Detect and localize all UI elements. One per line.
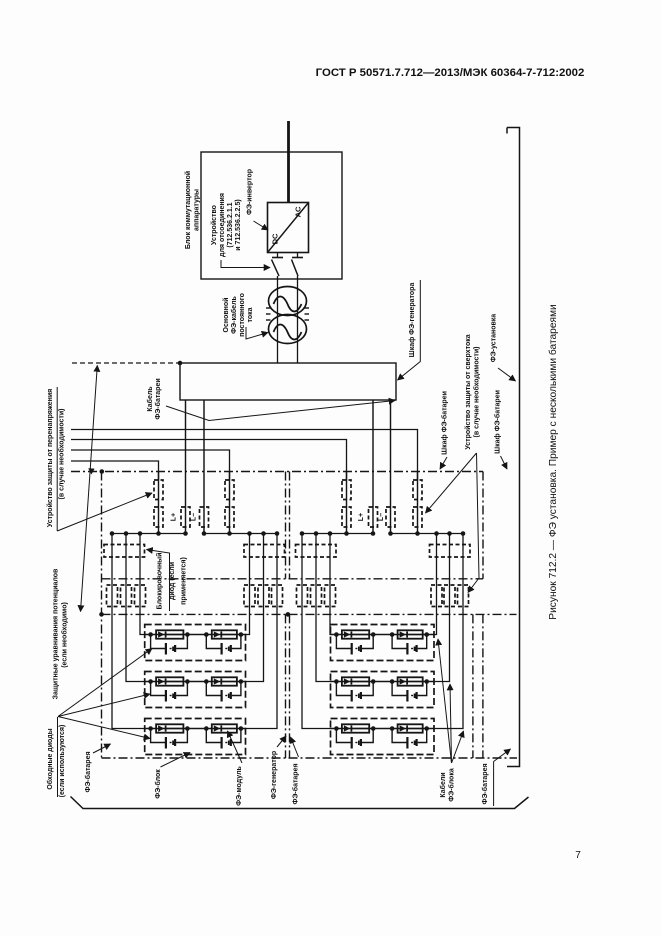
svg-text:ФЭ-батарея: ФЭ-батарея (481, 763, 489, 804)
PV module (156, 724, 183, 732)
svg-text:(712.536.2.1.1: (712.536.2.1.1 (227, 202, 234, 247)
bus left battery negative (204, 533, 277, 535)
wire DC pole 1 from switch to generator box (277, 276, 279, 363)
bus right battery positive (302, 533, 373, 535)
PV module (342, 630, 369, 638)
wire surge line 2 (71, 440, 347, 481)
svg-text:ФЭ-батареи: ФЭ-батареи (154, 378, 162, 419)
PV cell string below module (336, 682, 351, 696)
rule and leader ФЭ-батарея right (493, 762, 495, 807)
boundary chain vertical mid-right (289, 472, 291, 579)
svg-text:применяется): применяется) (181, 557, 188, 605)
svg-text:Блок коммутационной: Блок коммутационной (184, 171, 192, 249)
svg-text:7: 7 (575, 850, 581, 861)
leaders Кабели ФЭ-блока (438, 639, 452, 763)
terminal strip row1 cluster D (430, 545, 471, 558)
PV cell string below module (151, 682, 166, 696)
side dashes of converter symbol (266, 307, 271, 309)
svg-text:ФЭ-блок: ФЭ-блок (154, 769, 162, 799)
svg-text:ФЭ-генератор: ФЭ-генератор (271, 751, 278, 799)
disconnector switch blade 2 (292, 260, 299, 277)
leader to disconnector (221, 260, 270, 268)
leader equipotential bonding (double arrow) (81, 366, 98, 612)
svg-text:Устройство защиты от перенапря: Устройство защиты от перенапряжения (46, 389, 54, 527)
PV generator junction box (Шкаф ФЭ-генератора) (180, 363, 396, 400)
rule for surge label (56, 387, 58, 531)
svg-text:ФЭ-кабель: ФЭ-кабель (230, 295, 238, 333)
PV module (212, 677, 237, 685)
boundary chain bottom of battery cabinets (102, 578, 484, 580)
PV string box group R row 2 (331, 672, 435, 708)
PV cell string below module (392, 682, 407, 696)
SPD dashed boxes at x=417.5 (413, 480, 422, 500)
PV string box group R row 1 (331, 625, 435, 661)
leaders сверхтока (426, 453, 477, 513)
svg-text:Рисунок 712.2 — ФЭ установка.: Рисунок 712.2 — ФЭ установка. Пример с н… (547, 304, 559, 619)
svg-text:Шкаф ФЭ-генератора: Шкаф ФЭ-генератора (409, 283, 416, 358)
risers cluster D from right strings (434, 607, 437, 635)
svg-text:DC: DC (271, 233, 280, 244)
svg-text:Кабели: Кабели (439, 772, 447, 797)
svg-text:Устройство: Устройство (210, 205, 218, 245)
switchgear assembly box (Блок коммутационной аппаратуры) (201, 152, 342, 279)
risers cluster C to right strings (329, 607, 332, 635)
wires cluster C drop to terminals (301, 534, 303, 607)
wire surge line 1 (71, 430, 418, 481)
svg-text:для отсоединения: для отсоединения (219, 193, 226, 257)
disconnector switch blade 1 (272, 260, 280, 277)
risers cluster A to left strings (140, 607, 145, 635)
string bus group R row 2 (331, 681, 435, 683)
pole fuse dashed box at x=185.5 (181, 507, 190, 527)
boundary chain line top of battery cabinets (71, 471, 483, 473)
PV cell string below module (392, 635, 407, 649)
terminal boxes row2 cluster C (297, 585, 308, 607)
svg-text:Шкаф ФЭ-батареи: Шкаф ФЭ-батареи (441, 391, 449, 455)
bus right battery negative (391, 533, 464, 535)
boundary chain vertical right outer lower (482, 614, 484, 758)
svg-text:тока: тока (247, 307, 254, 322)
svg-text:AC: AC (294, 206, 303, 217)
string bus group L row 2 (145, 681, 246, 683)
rule and leader for Шкаф ФЭ-генератора (398, 280, 421, 380)
converter/meter symbol circle 2 (269, 315, 307, 344)
PV module (342, 724, 369, 732)
svg-text:ФЭ-инвертор: ФЭ-инвертор (247, 169, 254, 215)
node on array chain (99, 612, 104, 617)
PV cell string below module (392, 729, 407, 743)
svg-text:Блокировочный: Блокировочный (156, 553, 164, 610)
PV module (342, 677, 369, 685)
PV string box group R row 3 (331, 719, 435, 755)
wires cluster B drop to terminals (249, 534, 251, 607)
leader to inverter (254, 221, 269, 230)
svg-text:постоянного: постоянного (239, 293, 246, 337)
PV string box group L row 3 (145, 719, 246, 755)
PV module (398, 677, 423, 685)
PV string box group L row 2 (145, 672, 246, 708)
node at generator box corner (178, 361, 183, 366)
svg-text:L+: L+ (171, 513, 178, 521)
string bus group R row 1 (331, 634, 435, 636)
pole fuse dashed box at x=204 (200, 507, 209, 527)
boundary chain top of PV arrays (102, 613, 517, 615)
svg-text:L–: L– (378, 513, 385, 521)
svg-text:Защитные уравнивания потенциал: Защитные уравнивания потенциалов (53, 568, 60, 699)
rule for Обходные диоды (57, 717, 59, 797)
terminal boxes row2 cluster A (107, 585, 118, 607)
svg-text:ФЭ-батарея: ФЭ-батарея (84, 751, 92, 792)
svg-text:Обходные диоды: Обходные диоды (46, 728, 54, 789)
wires cluster D drop to terminals (436, 534, 438, 607)
PV cell string below module (151, 729, 166, 743)
disconnector terminals below inverter (277, 253, 279, 258)
risers cluster B from left strings (246, 607, 250, 635)
PV module (212, 724, 237, 732)
svg-text:(в случае необходимости): (в случае необходимости) (58, 409, 66, 500)
svg-text:Кабель: Кабель (146, 386, 154, 412)
leader Кабель ФЭ-батареи (166, 401, 395, 421)
svg-text:(если используются): (если используются) (59, 725, 66, 798)
PV string box group L row 1 (145, 625, 246, 661)
converter/meter symbol circle 1 (269, 287, 307, 316)
PV module (212, 630, 237, 638)
svg-text:диод (если: диод (если (169, 562, 176, 600)
wire surge line 4 (71, 461, 159, 480)
boundary chain vertical right upper (482, 472, 484, 579)
PV module (398, 630, 423, 638)
string bus group L row 1 (145, 634, 246, 636)
inverter U1 DC/AC box (268, 203, 309, 253)
svg-text:L–: L– (191, 513, 198, 521)
svg-text:ФЭ-модуль: ФЭ-модуль (236, 765, 243, 805)
PV module (398, 724, 423, 732)
PV cell string below module (206, 729, 221, 743)
string bus group L row 3 (145, 728, 246, 730)
SPD dashed boxes at x=229.5 (225, 480, 234, 500)
svg-text:и 712.536.2.2.5): и 712.536.2.2.5) (235, 199, 242, 250)
wire DC pole 2 from switch to generator box (297, 276, 299, 363)
svg-text:Устройство защиты от сверхтока: Устройство защиты от сверхтока (464, 334, 472, 449)
svg-text:ФЭ-батарея: ФЭ-батарея (292, 763, 300, 804)
wire surge line 3 (71, 450, 230, 480)
svg-text:L+: L+ (358, 513, 365, 521)
leader to SPD (57, 493, 152, 531)
terminal boxes row2 cluster D (431, 585, 442, 607)
rule and leader for Блокировочный диод (147, 550, 170, 612)
PV cell string below module (206, 682, 221, 696)
svg-text:(если необходимо): (если необходимо) (60, 602, 68, 668)
bus left battery positive (112, 533, 186, 535)
boundary chain vertical mid-left (285, 472, 287, 579)
bypass diode fan leaders (58, 649, 152, 717)
wire AC output (thick) (287, 121, 290, 203)
string bus group R row 3 (331, 728, 435, 730)
svg-text:ГОСТ Р 50571.7.712—2013/МЭК 6: ГОСТ Р 50571.7.712—2013/МЭК 60364-7-712:… (316, 67, 585, 79)
leader to main DC cable (246, 327, 268, 339)
boundary chain vertical left (101, 472, 103, 759)
boundary chain vertical right inner lower (472, 614, 474, 758)
svg-text:ФЭ-блока: ФЭ-блока (448, 768, 456, 802)
SPD dashed boxes at x=158.5 (154, 480, 163, 500)
PV cell string below module (336, 635, 351, 649)
terminal strip row1 cluster A (104, 545, 145, 558)
svg-text:ФЭ-установка: ФЭ-установка (491, 314, 498, 363)
PV cell string below module (336, 729, 351, 743)
PV cell string below module (206, 635, 221, 649)
terminal strip row1 cluster B (244, 545, 285, 558)
equipotential dashed line at generator box (72, 362, 180, 364)
terminal boxes row2 cluster B (244, 585, 255, 607)
pole fuse dashed box at x=373 (369, 507, 378, 527)
SPD dashed boxes at x=346.5 (342, 480, 351, 500)
svg-text:Основной: Основной (222, 298, 230, 333)
PV cell string below module (151, 635, 166, 649)
terminal strip row1 cluster C (296, 545, 337, 558)
boundary chain bottom of PV arrays (102, 757, 518, 759)
svg-text:аппаратуры: аппаратуры (194, 189, 201, 231)
PV module (156, 677, 183, 685)
pole fuse dashed box at x=390.5 (386, 507, 395, 527)
PV module (156, 630, 183, 638)
svg-text:(в случае необходимости): (в случае необходимости) (473, 347, 481, 438)
bottom frame line with bevels (71, 797, 529, 809)
wires cluster A drop to terminals (111, 534, 113, 607)
svg-text:Шкаф ФЭ-батареи: Шкаф ФЭ-батареи (494, 390, 502, 454)
PV installation boundary line (507, 128, 520, 767)
node on chain line (100, 469, 105, 474)
